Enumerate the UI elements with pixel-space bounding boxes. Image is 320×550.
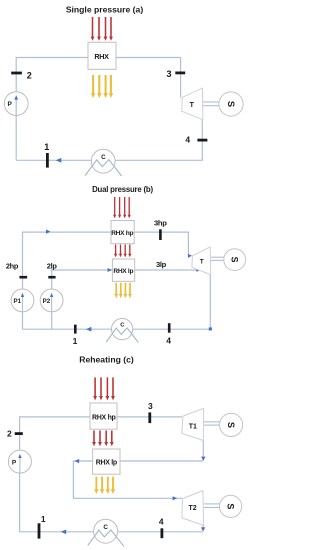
state tick 2 [11, 72, 22, 75]
svg-text:RHX hp: RHX hp [92, 415, 116, 422]
wire: RHX right to turbine inlet [116, 58, 181, 98]
state tick 1 [38, 523, 41, 538]
state tick 3 [175, 72, 185, 75]
svg-text:2: 2 [7, 428, 12, 438]
svg-text:T: T [190, 102, 195, 109]
turbine T [192, 247, 211, 275]
heat-out arrows (gold) below RHX lp [114, 283, 132, 298]
state tick 4 [160, 528, 163, 538]
wire: bottom run condenser to pump [20, 531, 204, 533]
state tick 3 [148, 412, 151, 423]
svg-text:2lp: 2lp [47, 261, 58, 270]
generator S (T2) [220, 495, 242, 517]
interstage arrows (red) into RHX lp [114, 245, 131, 258]
generator S (T1) [220, 413, 243, 436]
wire: turbine exhaust down and bottom run [23, 274, 211, 330]
svg-text:T2: T2 [189, 505, 197, 512]
flow arrow into turbine mid [196, 268, 200, 272]
svg-text:RHX lp: RHX lp [113, 268, 133, 275]
flow arrow down at T2 exhaust [201, 527, 205, 531]
wire: RHX hp left to pump vertical down to bottom [20, 417, 90, 532]
generator S [219, 92, 243, 116]
state tick 4 [197, 139, 207, 142]
svg-text:1: 1 [41, 514, 46, 524]
wire: RHX hp left to P1 vertical down to bottom [23, 232, 112, 329]
svg-text:4: 4 [159, 517, 164, 527]
heat-out arrows (gold) below RHX lp [94, 477, 115, 494]
wire: reheat run into RHX lp right side [120, 460, 203, 462]
svg-text:P: P [8, 101, 13, 108]
shaft T-S [203, 101, 219, 103]
svg-text:C: C [101, 154, 106, 161]
turbine T [182, 88, 203, 120]
wire: RHX left to pump vertical down to bottom [16, 58, 88, 161]
svg-text:P: P [12, 460, 17, 467]
state tick 3hp [159, 229, 162, 240]
condenser C [112, 319, 133, 340]
pump P [8, 450, 31, 473]
flow arrow bottom (left) [86, 327, 92, 332]
heat-in arrows (red) into RHX hp [113, 197, 131, 218]
svg-text:RHX: RHX [94, 52, 109, 61]
svg-text:S: S [226, 422, 236, 428]
svg-text:3: 3 [148, 401, 153, 411]
svg-text:1: 1 [44, 142, 49, 152]
svg-text:RHX hp: RHX hp [111, 230, 133, 237]
state tick 2hp [19, 276, 27, 279]
flow arrow bottom (left) [56, 158, 62, 163]
svg-text:T: T [200, 258, 204, 265]
shaft T1-S [204, 421, 220, 423]
wire: T2 exhaust down [202, 525, 204, 529]
svg-text:Reheating (c): Reheating (c) [79, 354, 134, 364]
svg-text:Dual pressure (b): Dual pressure (b) [92, 185, 153, 194]
shaft T-S [211, 256, 224, 258]
condenser C [91, 149, 115, 173]
svg-text:1: 1 [73, 336, 78, 346]
wire: RHX lp left to P2 vertical [52, 270, 113, 329]
pump P2 [40, 289, 63, 312]
svg-text:2: 2 [27, 70, 32, 80]
svg-text:T1: T1 [189, 423, 197, 430]
svg-text:S: S [230, 257, 240, 263]
svg-text:P1: P1 [14, 298, 22, 305]
svg-text:2hp: 2hp [6, 261, 19, 270]
pump P1 [11, 289, 34, 312]
shaft T2-S [204, 503, 219, 505]
svg-text:4: 4 [166, 336, 171, 346]
flow arrow into RHX lp [108, 268, 112, 272]
state tick 4 [168, 323, 171, 333]
state tick 1 [46, 153, 49, 168]
heat-out arrows (gold) below RHX [91, 75, 113, 98]
heat-in arrows (red) into RHX hp [93, 377, 115, 400]
condenser C [94, 519, 118, 543]
svg-text:P2: P2 [43, 298, 51, 305]
flow arrow into turbine top [188, 254, 192, 258]
state tick 2lp [48, 276, 55, 279]
generator S [224, 249, 246, 271]
turbine T1 [182, 408, 204, 440]
turbine T2 [182, 491, 204, 526]
wire: RHX hp right (3hp) to turbine top inlet [134, 232, 188, 256]
wire: RHX hp right (3) to turbine T1 [117, 416, 182, 418]
flow arrow top wire (right) [46, 230, 51, 234]
heat-in arrows (red) into RHX [91, 17, 113, 41]
svg-text:C: C [103, 524, 108, 531]
state tick 1 [74, 325, 77, 334]
flow arrow bottom (left) [61, 530, 66, 535]
svg-text:3hp: 3hp [154, 219, 167, 228]
heat exchanger RHX lp [112, 259, 134, 281]
state tick 2 [15, 432, 23, 435]
flow arrow right into T2 [173, 496, 178, 500]
svg-text:S: S [226, 101, 237, 107]
flow arrow down into reheat run [201, 457, 205, 461]
wire: RHX lp left out, down and right to turbine T2 [73, 461, 182, 498]
pump P [4, 92, 28, 116]
heat exchanger RHX [88, 42, 116, 69]
svg-text:3: 3 [166, 69, 171, 79]
svg-text:3lp: 3lp [156, 260, 167, 269]
svg-text:RHX lp: RHX lp [96, 459, 117, 466]
svg-text:Single pressure (a): Single pressure (a) [66, 5, 144, 15]
heat exchanger RHX lp [93, 449, 120, 474]
flow arrow left out of RHX lp [75, 459, 80, 463]
wire: T1 exhaust down to reheater RHX lp right [202, 441, 204, 459]
heat exchanger RHX hp [90, 403, 117, 429]
junction dot [209, 327, 212, 330]
heat exchanger RHX hp [111, 221, 134, 244]
wire: turbine exhaust down and bottom run to pump [16, 120, 202, 161]
interstage arrows (red) into RHX lp [92, 431, 114, 447]
wire: RHX lp right (3lp) to turbine mid inlet [135, 269, 197, 271]
svg-text:S: S [226, 503, 236, 509]
svg-text:4: 4 [185, 135, 190, 145]
